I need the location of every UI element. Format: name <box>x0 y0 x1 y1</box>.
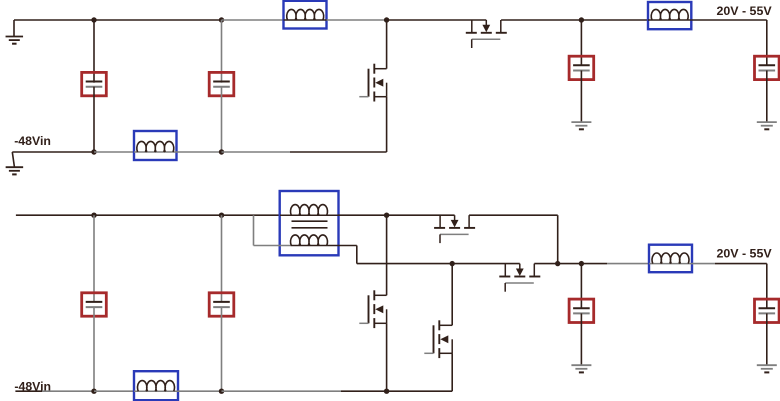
node G (C5 top junction) <box>91 213 96 218</box>
wire bottom rail 2: node M to L5 <box>94 390 134 392</box>
wire mid rail: secondary to node J <box>357 263 452 265</box>
inductor L5 (return rail) <box>134 371 178 400</box>
ground (C3 output) <box>571 121 591 123</box>
capacitor C3 <box>569 56 594 79</box>
wire Q4 drain to corner <box>469 214 558 216</box>
wire bottom rail: ground to node E <box>12 151 94 153</box>
ground (C7 output) <box>571 364 591 366</box>
transistor Q1 drain wire <box>386 20 388 69</box>
transistor Q2 (primary switch MOSFET, vertical) <box>373 290 375 300</box>
capacitor C3 top lead <box>580 20 582 65</box>
transistor Q4 (forward MOSFET, horizontal) <box>439 215 441 228</box>
capacitor C8 bottom lead <box>766 313 768 365</box>
node N (C6 bottom junction) <box>219 389 224 394</box>
wire bottom rail 2: input to node M <box>15 390 42 392</box>
node A (C1 top junction) <box>91 17 96 22</box>
wire top rail: node D to L2 <box>581 19 648 21</box>
transistor Q3 source wire to bottom rail <box>451 353 453 391</box>
transistor Q1 (main switch MOSFET, vertical) <box>373 64 375 74</box>
node L (C7 top junction) <box>579 261 584 266</box>
capacitor C7 <box>569 299 594 322</box>
svg-text:20V - 55V: 20V - 55V <box>717 4 773 18</box>
wire top rail: node C to Q2 <box>387 19 487 21</box>
wire mid rail: node J to Q5 <box>452 263 520 265</box>
ground (input return, -48Vin) <box>12 152 14 167</box>
capacitor C1 <box>82 72 107 95</box>
wire top rail: node A to node B <box>94 19 222 21</box>
wire bottom rail 2: node N to node P <box>222 390 342 392</box>
ground (C4 output) <box>757 121 777 123</box>
ground (input, top-left) <box>13 20 15 36</box>
capacitor C4 bottom lead <box>766 71 768 123</box>
wire top rail 2: T1 to node I <box>339 214 387 216</box>
capacitor C6 top lead <box>221 215 223 302</box>
capacitor C8 <box>755 299 780 322</box>
transistor Q2 drain wire <box>386 215 388 295</box>
inductor L2 <box>648 2 691 29</box>
wire bottom rail 2: L5 to node N <box>178 390 222 392</box>
wire top rail: node B to L1 <box>222 19 284 21</box>
capacitor C2 <box>209 72 234 95</box>
wire T1 secondary left tap to top rail <box>254 245 291 247</box>
wire T1 secondary right lead <box>327 245 356 247</box>
wire top rail 2: input to node G <box>16 214 94 216</box>
wire mid rail: node K to node L <box>558 263 582 265</box>
ground (C8 output) <box>757 364 777 366</box>
transformer T1 core <box>292 220 328 222</box>
wire top rail: L1 to node C <box>327 19 387 21</box>
transistor Q1 source wire to bottom rail <box>386 97 388 152</box>
node F (C2 bottom junction) <box>219 149 224 154</box>
inductor L1 <box>284 1 327 29</box>
capacitor C1 bottom lead <box>93 87 95 152</box>
capacitor C5 top lead <box>93 215 95 302</box>
inductor L3 (return rail) <box>134 131 177 160</box>
wire mid rail: node L to L4 <box>581 263 607 265</box>
node I (Q3 drain junction) <box>384 213 389 218</box>
transistor Q5 (catch MOSFET, horizontal) <box>504 264 506 277</box>
wire top rail 2: node H to T1 <box>222 214 281 216</box>
wire top rail 2: node I to Q4 <box>387 214 455 216</box>
capacitor C6 <box>209 293 234 316</box>
capacitor C6 bottom lead <box>221 307 223 391</box>
capacitor C3 bottom lead <box>580 71 582 123</box>
node E (C1 bottom junction) <box>91 149 96 154</box>
node C (Q1 drain junction) <box>384 17 389 22</box>
capacitor C4 <box>755 56 780 79</box>
wire top rail: L2 to output corner <box>691 19 767 21</box>
wire output drop to C4 <box>766 20 768 65</box>
wire bottom rail: node F to Q1 source <box>222 151 291 153</box>
transistor Q3 (sync MOSFET, vertical) <box>438 320 440 330</box>
capacitor C1 top lead <box>93 20 95 83</box>
capacitor C7 top lead <box>580 264 582 309</box>
node D (output node, C3 top) <box>579 17 584 22</box>
node H (C6 top junction) <box>219 213 224 218</box>
transformer T1 (coupled inductor) <box>280 191 339 255</box>
node M (C5 bottom junction) <box>91 389 96 394</box>
wire output drop to C8 <box>766 264 768 309</box>
transformer T1 primary winding <box>280 214 339 216</box>
wire mid rail: L4 to output corner <box>692 263 715 265</box>
wire bottom rail: L3 to node F <box>177 151 222 153</box>
capacitor C2 top lead <box>221 20 223 83</box>
node P (Q2 source junction) <box>384 389 389 394</box>
wire bottom rail 2: node P to Q3 source <box>341 390 452 392</box>
transformer T1 secondary winding <box>291 245 328 247</box>
wire top rail: ground to node A <box>14 19 94 21</box>
capacitor C5 bottom lead <box>93 307 95 391</box>
node K (Q4 drain junction) <box>555 261 560 266</box>
capacitor C2 bottom lead <box>221 87 223 152</box>
wire corner down to node K <box>557 215 559 263</box>
node J (Q5/Q3 junction) <box>450 261 455 266</box>
svg-text:20V - 55V: 20V - 55V <box>717 247 773 261</box>
capacitor C5 <box>82 293 107 316</box>
wire bottom rail: node E to L1b <box>94 151 134 153</box>
transistor Q3 drain wire <box>451 264 453 326</box>
wire mid rail: Q5 to node K <box>534 263 557 265</box>
node B (C2 top junction) <box>219 17 224 22</box>
transistor Q2 source wire to bottom rail <box>386 323 388 391</box>
transistor Q2 (high-side MOSFET, horizontal) <box>471 20 473 33</box>
capacitor C7 bottom lead <box>580 313 582 365</box>
wire top rail 2: node G to node H <box>94 214 222 216</box>
svg-text:-48Vin: -48Vin <box>14 134 51 148</box>
wire top rail: Q2 to node D <box>501 19 581 21</box>
inductor L4 (output) <box>649 245 692 273</box>
